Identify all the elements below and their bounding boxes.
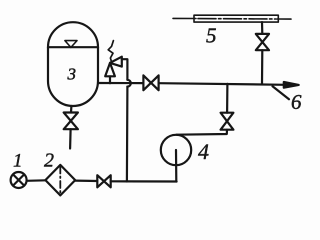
wire bottom line to pump xyxy=(111,180,177,182)
wire main line to outlet xyxy=(159,83,286,85)
svg-text:2: 2 xyxy=(44,150,54,172)
source fitting 1 (circle with X) xyxy=(11,172,27,188)
filter 2 (diamond with dash-dot element) xyxy=(45,165,75,196)
valve V3 (main line) xyxy=(143,75,158,90)
tank 3 (capsule vessel) xyxy=(48,22,98,106)
leader line for label 6 xyxy=(273,86,290,99)
wire drain open end xyxy=(69,129,72,148)
valve V4 (under cylinder) xyxy=(256,34,269,50)
wire riser from main line down to pump valve xyxy=(226,84,228,113)
svg-text:1: 1 xyxy=(13,151,23,172)
cylinder 5 (with dash-dot centerline) xyxy=(173,15,291,22)
wire riser to cylinder valve xyxy=(261,50,263,84)
valve V1 (bottom line) xyxy=(97,175,110,187)
wire tank bottom stub xyxy=(70,106,73,113)
wire main line from tank xyxy=(98,82,143,84)
svg-text:3: 3 xyxy=(67,65,77,84)
valve V5 (pump discharge) xyxy=(221,113,234,130)
wire filter to valve xyxy=(75,180,97,183)
wire riser from bottom line to safety valve outlet (with hop over main line) xyxy=(122,59,131,181)
svg-text:6: 6 xyxy=(291,90,302,114)
wire valve to cylinder xyxy=(261,22,263,34)
pump 4 (circle with radial suction line) xyxy=(161,135,191,182)
wire valve to pump discharge corner xyxy=(177,130,228,135)
valve V2 (tank drain) xyxy=(64,113,78,130)
safety valve (two triangles with spring) xyxy=(105,41,122,84)
svg-text:5: 5 xyxy=(206,24,217,48)
svg-text:4: 4 xyxy=(198,139,209,164)
outlet arrow 6 xyxy=(284,82,299,88)
wire source to filter xyxy=(27,179,46,182)
